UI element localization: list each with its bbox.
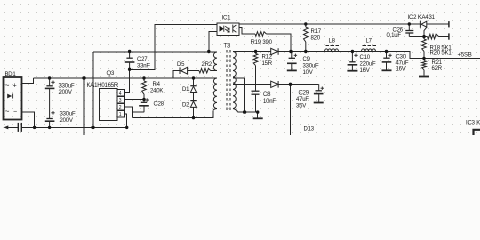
diode D1: [193, 78, 195, 86]
svg-text:R4: R4: [153, 82, 161, 88]
svg-text:D5: D5: [177, 62, 185, 68]
wire opto left-low pin to aux: [209, 32, 217, 52]
pin 3: [117, 97, 125, 104]
resistor R12 15R: [253, 52, 258, 91]
earth arrow: [3, 125, 8, 129]
wire: [92, 52, 94, 127]
svg-text:+5SB: +5SB: [458, 53, 472, 59]
terminal: [448, 33, 450, 39]
resistor R19 390: [255, 32, 267, 37]
svg-text:200V: 200V: [60, 118, 73, 124]
wire: [132, 111, 144, 113]
svg-text:62R: 62R: [432, 66, 443, 72]
diode D5: [173, 71, 180, 78]
ground: [287, 69, 297, 71]
svg-text:C28: C28: [154, 102, 165, 108]
wire: [193, 93, 195, 101]
capacitor C27 33nF: [125, 52, 135, 70]
terminal: [448, 21, 450, 27]
transformer T3 secondary winding: [233, 52, 236, 109]
svg-text:C10: C10: [360, 55, 371, 61]
IC Q3 KA1H0165R body: [100, 89, 118, 121]
diode D12 rectifier: [271, 48, 278, 55]
svg-text:15R: 15R: [262, 61, 273, 67]
svg-text:220uF: 220uF: [360, 62, 377, 68]
svg-text:2: 2: [119, 105, 122, 111]
wire bottom rail: [22, 126, 127, 128]
wire pin4 riser: [125, 69, 130, 92]
wire aux feed: [93, 51, 217, 53]
wire gnd return to transformer: [132, 111, 213, 118]
resistor 2R2: [199, 68, 211, 73]
inductor L7 core dashes: [363, 45, 377, 47]
wire: [83, 78, 85, 135]
transformer T3 primary lower winding: [213, 78, 217, 109]
wire pin2: [125, 107, 133, 118]
svg-text:330uF: 330uF: [59, 84, 76, 90]
svg-text:BD1: BD1: [5, 72, 17, 78]
wire: [211, 70, 217, 72]
wire: [409, 36, 427, 38]
svg-text:~: ~: [5, 107, 10, 116]
svg-text:IC3 K: IC3 K: [466, 120, 480, 126]
wire: [439, 36, 449, 38]
inductor L8 core dashes: [326, 45, 340, 47]
capacitor C26 0,1uF: [405, 24, 413, 37]
wire secondary mid tap: [233, 83, 271, 85]
svg-text:C8: C8: [263, 92, 271, 98]
capacitor C28: [139, 100, 149, 113]
svg-text:1: 1: [119, 112, 122, 118]
capacitor C9 330uF 10V: [287, 52, 297, 70]
ground: [347, 70, 357, 72]
resistor R4 240K: [142, 78, 147, 100]
svg-text:10V: 10V: [303, 70, 313, 76]
wire top rail to IC2: [306, 23, 420, 25]
svg-text:C9: C9: [303, 57, 311, 63]
pin 1: [117, 111, 125, 118]
capacitor C8 10nF: [252, 91, 260, 112]
capacitor line filter: [18, 123, 21, 132]
svg-text:200V: 200V: [59, 90, 72, 96]
capacitor C_bulk1 330uF 200V: [45, 78, 55, 118]
wire: [278, 83, 319, 85]
capacitor C10 220uF 16V: [348, 52, 358, 71]
svg-text:3: 3: [119, 98, 122, 104]
wire: [188, 70, 199, 72]
svg-text:D1: D1: [182, 87, 190, 93]
diode D2: [190, 101, 196, 108]
svg-text:R17: R17: [311, 29, 322, 35]
svg-text:+: +: [13, 83, 17, 90]
resistor R21 62R: [422, 61, 427, 76]
optocoupler IC1 box: [217, 23, 239, 36]
svg-text:330uF: 330uF: [303, 64, 320, 70]
svg-text:2R2: 2R2: [202, 62, 213, 68]
svg-text:47uF: 47uF: [296, 97, 309, 103]
wire pin3: [125, 99, 145, 101]
ground: [382, 69, 392, 71]
svg-text:240K: 240K: [150, 88, 163, 94]
wire: [238, 111, 259, 113]
capacitor C30 47uF 16V: [382, 52, 392, 70]
svg-text:−: −: [13, 109, 17, 116]
svg-text:D13: D13: [304, 127, 315, 133]
ground: [419, 76, 429, 78]
wire secondary top out: [233, 51, 256, 53]
svg-text:35V: 35V: [296, 104, 306, 110]
wire: [193, 107, 195, 117]
svg-text:R19 390: R19 390: [251, 40, 273, 46]
wire: [427, 23, 449, 25]
svg-text:820: 820: [311, 36, 321, 42]
shunt ref IC2 KA431: [420, 21, 426, 37]
svg-text:33nF: 33nF: [137, 63, 150, 69]
ground: [314, 102, 324, 104]
wire opto right-top to top rail: [239, 23, 306, 25]
wire: [22, 78, 34, 84]
capacitor C_bulk2 330uF 200V: [45, 118, 55, 127]
inductor L7: [362, 49, 376, 52]
svg-text:16V: 16V: [360, 68, 370, 74]
inductor L8: [325, 49, 339, 52]
bridge rectifier BD1: [4, 77, 22, 120]
wire opto right-low pin: [239, 28, 255, 35]
wire down to lower rail: [290, 84, 292, 135]
svg-text:T3: T3: [224, 43, 231, 49]
wire pin1: [125, 114, 127, 127]
svg-text:10nF: 10nF: [263, 99, 276, 105]
svg-text:L8: L8: [329, 39, 336, 45]
svg-text:Q3: Q3: [107, 71, 115, 77]
wire: [278, 52, 480, 59]
svg-text:IC1: IC1: [222, 16, 232, 22]
transformer T3 primary upper winding: [213, 52, 217, 71]
capacitor C29 47uF 35V: [314, 84, 324, 102]
svg-text:IC2 KA431: IC2 KA431: [408, 15, 436, 21]
svg-text:330uF: 330uF: [60, 112, 77, 118]
svg-text:16V: 16V: [396, 67, 406, 73]
transformer T3 core: [227, 50, 230, 111]
wire bottom rail left: [8, 126, 18, 128]
svg-text:C29: C29: [299, 91, 310, 97]
wire: [233, 109, 238, 113]
svg-text:D2: D2: [182, 102, 190, 108]
diode D11: [271, 81, 278, 88]
pin 2: [117, 104, 125, 111]
resistor R17 820: [304, 24, 309, 52]
wire: [267, 34, 292, 52]
svg-text:R20 5K1: R20 5K1: [430, 51, 453, 57]
svg-text:4: 4: [119, 91, 122, 97]
wire secondary lower tap: [233, 78, 245, 112]
svg-text:R12: R12: [262, 55, 273, 61]
wire: [213, 109, 217, 111]
svg-text:C27: C27: [137, 57, 148, 63]
pin 4: [117, 90, 125, 97]
resistor R18 5K1: [428, 34, 439, 39]
wire: [22, 112, 35, 128]
optocoupler IC1 internals: [220, 25, 237, 33]
wire +5V rail: [256, 51, 271, 53]
wire feedback to opto: [130, 25, 217, 70]
IC IC3 body corner: [474, 130, 480, 135]
svg-text:L7: L7: [366, 39, 373, 45]
svg-text:0,1uF: 0,1uF: [387, 33, 402, 39]
ground: [253, 117, 263, 119]
wire DC bus: [33, 77, 217, 79]
svg-text:KA1H0165R: KA1H0165R: [87, 83, 119, 89]
resistor R20 5K1: [422, 37, 427, 59]
svg-text:~: ~: [5, 81, 10, 90]
